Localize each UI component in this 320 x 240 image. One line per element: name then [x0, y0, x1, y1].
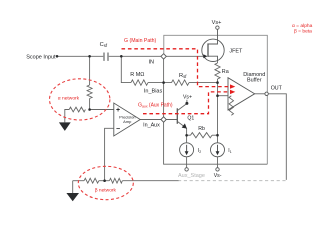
svg-text:Rb: Rb — [198, 126, 205, 132]
svg-text:−: − — [116, 126, 120, 133]
svg-text:In_Aux: In_Aux — [143, 122, 160, 128]
svg-text:β = beta: β = beta — [294, 29, 312, 35]
svg-text:+: + — [116, 107, 120, 114]
svg-text:G (Main Path): G (Main Path) — [124, 38, 157, 44]
svg-text:Amp: Amp — [123, 119, 132, 124]
svg-text:Q1: Q1 — [187, 115, 194, 121]
svg-text:OUT: OUT — [271, 85, 283, 91]
svg-text:α network: α network — [58, 95, 80, 101]
svg-text:In_Bias: In_Bias — [144, 88, 163, 94]
svg-text:Csf: Csf — [100, 42, 108, 48]
svg-text:Rsf: Rsf — [179, 73, 187, 79]
svg-text:Buffer: Buffer — [247, 78, 262, 84]
svg-text:Scope Input: Scope Input — [26, 54, 56, 60]
svg-text:Vs+: Vs+ — [212, 20, 222, 26]
svg-text:2: 2 — [199, 150, 201, 154]
svg-text:β network: β network — [95, 188, 117, 194]
svg-text:Ra: Ra — [222, 69, 229, 75]
svg-text:Vs-: Vs- — [214, 173, 222, 179]
svg-text:IN: IN — [149, 60, 155, 66]
svg-text:α = alpha: α = alpha — [292, 23, 313, 29]
svg-text:1: 1 — [230, 150, 232, 154]
svg-text:Aux_Stage: Aux_Stage — [178, 173, 205, 179]
svg-text:R MΩ: R MΩ — [130, 72, 144, 78]
svg-text:Vs+: Vs+ — [183, 95, 192, 101]
svg-text:JFET: JFET — [229, 49, 243, 55]
